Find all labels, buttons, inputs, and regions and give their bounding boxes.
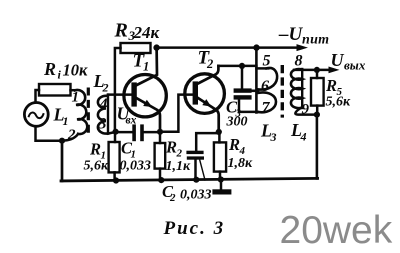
node dot C2 on rail (193, 177, 199, 183)
node dot R2 on rail (158, 177, 164, 183)
svg-text:24к: 24к (133, 23, 160, 42)
inductor L2 winding (98, 96, 106, 134)
C2 leader line (200, 160, 205, 180)
svg-text:0,033: 0,033 (120, 159, 152, 174)
wire L4 top / output (294, 69, 328, 72)
wire source top to Ri (36, 90, 40, 103)
svg-text:вых: вых (344, 58, 366, 73)
R5 top lead (316, 70, 319, 78)
sine symbol inside source (29, 113, 44, 119)
resistor R5 (311, 78, 324, 106)
inductor L3 axis (255, 48, 258, 113)
node dot source/L1 bottom (59, 138, 65, 144)
svg-text:3: 3 (98, 116, 107, 133)
wire emitter node to T2 base (160, 95, 193, 132)
svg-text:5: 5 (263, 53, 271, 70)
svg-text:6: 6 (261, 78, 269, 95)
svg-text:7: 7 (262, 100, 271, 117)
R1 top lead (114, 132, 117, 142)
wire R3 left lead down (115, 48, 121, 132)
node dot L3 top on rail (253, 44, 259, 50)
R1 bottom lead (113, 172, 116, 180)
svg-text:1: 1 (63, 114, 69, 128)
T2 emitter arrow (202, 99, 211, 107)
L4 bottom lead (295, 107, 317, 115)
ground rail (61, 178, 318, 181)
resistor Ri (39, 84, 71, 96)
svg-text:R: R (114, 20, 128, 42)
resistor R4 (214, 142, 226, 171)
capacitor C2 (186, 151, 203, 154)
wire node to C1 (116, 131, 133, 134)
svg-text:R: R (325, 76, 337, 95)
L3 top lead (256, 67, 268, 70)
wire node down to ground rail (61, 141, 64, 181)
svg-text:300: 300 (226, 115, 248, 130)
inductor L4 winding (291, 69, 302, 108)
svg-text:U: U (331, 50, 345, 70)
transformer core T2 (dashed) (281, 65, 284, 118)
svg-text:0,033: 0,033 (180, 188, 212, 203)
svg-text:R: R (165, 138, 177, 157)
R4 top lead (218, 132, 221, 143)
T2 collector (198, 66, 218, 84)
T1 emitter (137, 98, 160, 132)
svg-text:4: 4 (99, 96, 108, 113)
output arrowhead (329, 67, 340, 74)
resistor R1 (109, 142, 120, 172)
svg-text:4: 4 (300, 130, 307, 144)
wire C1 to emitter node (144, 131, 160, 134)
transistor T2 (185, 74, 225, 114)
R5 bottom lead (316, 106, 319, 115)
svg-text:10к: 10к (63, 61, 89, 80)
transformer core T1 (dashed) (87, 88, 90, 138)
node dot T1 emitter (157, 129, 163, 135)
node dot C3 top (239, 63, 245, 69)
wire source bottom to node (36, 127, 63, 141)
node dot T2 emitter (216, 129, 222, 135)
T1 emitter arrow (143, 100, 152, 107)
svg-text:R: R (228, 135, 240, 154)
svg-text:R: R (43, 59, 56, 79)
supply arrowhead (297, 44, 309, 51)
T2 collector wire right (218, 65, 256, 68)
node dot R4 on rail (218, 176, 224, 182)
resistor R2 (155, 143, 166, 169)
node dot R1 on rail (113, 177, 119, 183)
R4 bottom lead (219, 172, 222, 181)
L1 bottom lead (62, 134, 78, 141)
svg-text:R: R (89, 140, 101, 159)
top supply rail (157, 46, 298, 49)
svg-text:1,8к: 1,8к (228, 156, 254, 171)
svg-text:5,6к: 5,6к (326, 95, 352, 110)
svg-text:пит: пит (302, 33, 329, 48)
R2 bottom lead (159, 169, 162, 181)
R2 top lead (159, 132, 162, 143)
svg-text:1,1к: 1,1к (166, 159, 192, 174)
svg-text:1: 1 (72, 90, 80, 106)
node dot R5 bottom (314, 112, 320, 118)
inductor L1 winding (75, 90, 87, 134)
svg-text:–U: –U (278, 24, 304, 45)
svg-text:2: 2 (206, 57, 213, 71)
svg-text:2: 2 (67, 127, 76, 143)
node dot base bias (113, 129, 119, 135)
svg-text:20wek: 20wek (280, 209, 393, 252)
svg-text:8: 8 (295, 53, 303, 70)
L2 axis line (107, 95, 109, 134)
signal source G1 (24, 103, 48, 127)
svg-text:2: 2 (169, 192, 176, 204)
capacitor C1 (132, 124, 136, 141)
L2 bottom lead to node (108, 132, 116, 134)
wire Ri to L1 (71, 89, 76, 92)
svg-text:i: i (58, 68, 62, 82)
svg-text:2: 2 (102, 81, 109, 95)
L4 axis line (301, 69, 303, 108)
svg-text:2: 2 (176, 148, 183, 160)
resistor R3 (121, 43, 151, 53)
C2 bottom lead (194, 160, 197, 181)
node dot R3/collector on rail (153, 44, 159, 50)
wire emitter node to C2 (196, 133, 219, 151)
svg-text:3: 3 (270, 130, 277, 144)
wire L2 top to T1 base (108, 93, 131, 96)
svg-text:9: 9 (302, 102, 310, 118)
capacitor C3 (241, 66, 244, 89)
svg-text:Рис. 3: Рис. 3 (163, 218, 226, 239)
L3 tap 6 lead (252, 90, 259, 93)
C3 bottom lead (239, 100, 258, 112)
T2 emitter (198, 98, 219, 132)
node dot output (314, 67, 320, 73)
L3 winding (259, 68, 278, 90)
svg-text:5,6к: 5,6к (84, 159, 110, 174)
ground (220, 180, 223, 190)
T1 collector (137, 48, 157, 85)
transistor T1 (124, 75, 166, 117)
wire output down to rail (316, 115, 319, 179)
svg-text:1: 1 (143, 60, 149, 74)
